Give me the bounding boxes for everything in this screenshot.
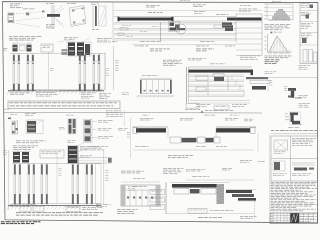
mid section door edge verticals: [207, 82, 209, 96]
top drawing upper boundary line: [113, 9, 262, 11]
hatched column: [217, 184, 225, 204]
bottom door elevation label: [121, 170, 126, 173]
left track cluster: [13, 152, 20, 163]
top drawing dims: [132, 44, 236, 46]
title block: [270, 213, 318, 223]
vertical dims: [8, 150, 10, 210]
box TL content: [274, 140, 288, 150]
right steps: [226, 190, 252, 193]
chart 2 axes: [267, 34, 269, 52]
strip lower texts: [299, 64, 303, 67]
mid door elevation ground line: [137, 95, 174, 97]
bottom section top texts: [163, 167, 167, 170]
detail-nr glyph: [8, 118, 11, 120]
chart 1 caption: [265, 23, 270, 26]
bottom section dim line top: [186, 179, 254, 181]
wide column: [96, 164, 102, 204]
mid section bottom dims: [190, 100, 250, 102]
long bottom note 2 lines: [16, 211, 21, 214]
drawing boundary fold line: [112, 2, 114, 43]
elevation posts: [13, 54, 15, 91]
head rail dark bar left: [114, 16, 236, 18]
chart 2 vertical grid: [271, 36, 289, 52]
small text above heading: [292, 123, 297, 126]
plan detail left wall: [133, 125, 168, 127]
chart 1 title: [272, 0, 275, 3]
right side elevation of top drawing: [239, 8, 242, 11]
title block logo: [290, 213, 299, 223]
mid door elevation labels: [142, 74, 145, 77]
bottom door elevation dim: [121, 181, 160, 183]
bottom door elevation box: [121, 185, 160, 206]
legend box: [8, 101, 120, 109]
roller boxes: [120, 28, 128, 31]
box BR content: [292, 162, 315, 164]
right info strip: [300, 2, 318, 63]
right track cluster: [62, 49, 68, 55]
bottom elevation top texts: [13, 145, 17, 148]
plot stamp footer: [1, 221, 5, 222]
right column divider line: [264, 77, 318, 79]
mid section left edge: [186, 67, 188, 103]
head rail dark bar right: [227, 18, 262, 21]
posts bottom elevation: [14, 164, 16, 205]
bottom section assembly: [170, 182, 230, 184]
dim lines vertical: [48, 52, 50, 90]
text below legend box: [106, 110, 109, 113]
stacked profiles: [85, 120, 91, 125]
left jamb cluster: [169, 22, 180, 32]
detail B: jamb section: [46, 2, 48, 5]
rails: [12, 163, 101, 165]
box TR content: [292, 137, 294, 140]
floor line: [8, 90, 104, 92]
label text block top-left: [10, 3, 14, 6]
plan detail dims: [133, 149, 254, 151]
chart 2 caption: [265, 55, 268, 58]
floor: [8, 205, 101, 207]
bottom section dims bottom: [166, 213, 254, 215]
profile detail G: [69, 119, 72, 134]
mid section roller boxes: [196, 76, 208, 81]
wide column: [100, 54, 106, 90]
upper corner profile detail: [284, 85, 287, 88]
left track cluster: [13, 45, 18, 52]
mid section pocket steps: [232, 77, 244, 97]
mid section track double lines: [189, 75, 245, 97]
chart 1 histogram hatched: [273, 9, 290, 19]
profile detail E: [10, 113, 14, 116]
heading underlined: [271, 129, 274, 132]
track double lines: [114, 23, 236, 41]
plan detail right wall: [216, 125, 256, 127]
text under details row: [16, 140, 21, 143]
mid section head dim line: [188, 65, 252, 67]
plan detail left margin dim: [129, 118, 131, 158]
chart 1 x labels: [269, 19, 273, 22]
labels below floor: [20, 207, 31, 212]
2x2 detail boxes: [271, 136, 318, 181]
small text: [59, 126, 64, 129]
detail C: tilted door panel: [67, 0, 70, 3]
sheet top tiny label: [180, 0, 183, 2]
leader text cluster right of stacked profiles: [106, 112, 110, 115]
elevation top note: [9, 35, 12, 38]
small text above long note: [10, 203, 13, 206]
stand text: [265, 71, 269, 74]
detail F label: [25, 112, 30, 115]
notes column left boundary: [269, 134, 271, 213]
mid section head dark bar: [188, 67, 252, 69]
left margin text: [3, 47, 7, 50]
elevation rails: [10, 52, 102, 54]
tiny labels in top drawing rows: [122, 24, 125, 27]
detail D: wall section: [91, 1, 94, 4]
chart 2 title: [271, 32, 273, 34]
nameplate text: [117, 208, 121, 211]
left boundary + label boxes: [165, 182, 167, 214]
strip mini bar chart: [303, 50, 317, 63]
label box with leaders: [41, 44, 53, 52]
detail A: beam profile with dashed leaders: [8, 13, 14, 23]
chart 2 triangle: [269, 36, 288, 52]
mid door elevation box: [140, 77, 172, 79]
chart 2 x labels: [268, 52, 272, 55]
plan detail middle chain: [167, 127, 169, 138]
detail circle marker: [176, 24, 186, 34]
pocket step boxes: [214, 25, 223, 28]
texts below floor: [10, 92, 14, 95]
white label box: [40, 150, 64, 158]
top drawing title row: [146, 4, 149, 7]
detail F cluster: [27, 121, 36, 133]
level line: [4, 111, 262, 114]
right track mast cluster: [68, 146, 78, 163]
box BL content: [274, 162, 280, 170]
mid section right extensions: [246, 77, 268, 79]
track tube extending right: [79, 158, 112, 164]
plan detail texts: [140, 117, 143, 120]
mid section top texts: [163, 59, 166, 62]
chart 1 grid box: [267, 4, 293, 20]
door edge vertical: [160, 22, 162, 42]
lintel L-profile detail: [295, 98, 302, 99]
notes block: [271, 181, 274, 184]
